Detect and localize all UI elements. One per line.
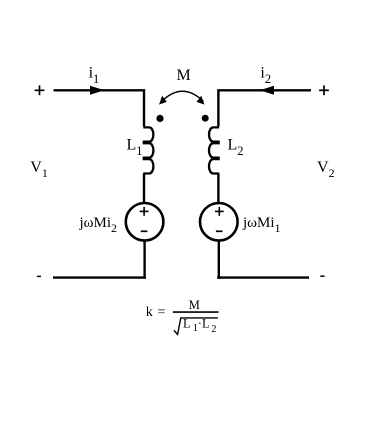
svg-text:V1: V1 bbox=[30, 159, 48, 180]
inductor L1 bbox=[143, 127, 153, 173]
wire right between coil and source bbox=[217, 174, 219, 204]
minus terminal left (V1 -) bbox=[37, 275, 41, 277]
plus terminal right (V2 +) bbox=[319, 85, 329, 95]
svg-text:=: = bbox=[158, 305, 166, 320]
svg-text:2: 2 bbox=[211, 324, 216, 335]
plus sign in right source bbox=[215, 207, 224, 216]
wire bottom-left bbox=[53, 276, 146, 278]
polarity dot left bbox=[156, 115, 163, 122]
source jwMi2 bbox=[126, 203, 164, 241]
wire left between coil and source bbox=[143, 174, 145, 204]
radical sign bbox=[174, 318, 218, 335]
current arrow i2 bbox=[260, 86, 274, 95]
svg-text:L1: L1 bbox=[127, 137, 143, 159]
mutual coupling arc M bbox=[162, 91, 204, 101]
minus sign in right source bbox=[216, 230, 223, 232]
minus sign in left source bbox=[141, 230, 148, 232]
svg-text:jωMi1: jωMi1 bbox=[242, 215, 281, 235]
arrowhead left of M arc bbox=[159, 96, 167, 105]
current arrow i1 bbox=[90, 86, 105, 95]
plus terminal left (V1 +) bbox=[35, 85, 45, 95]
wire top-right input bbox=[218, 90, 311, 126]
svg-text:k: k bbox=[146, 305, 153, 320]
source jwMi1 bbox=[200, 203, 238, 241]
svg-text:i2: i2 bbox=[260, 64, 271, 86]
svg-text:jωMi2: jωMi2 bbox=[79, 215, 118, 235]
fraction bar bbox=[173, 311, 219, 313]
svg-text:L: L bbox=[202, 317, 210, 331]
arrowhead right of M arc bbox=[197, 96, 205, 105]
plus sign in left source bbox=[140, 207, 149, 216]
svg-text:M: M bbox=[189, 298, 200, 312]
svg-text:V2: V2 bbox=[317, 159, 335, 180]
wire left below source bbox=[143, 241, 145, 279]
svg-text:M: M bbox=[176, 67, 190, 84]
wire top-left input bbox=[54, 90, 145, 126]
inductor L2 bbox=[209, 127, 219, 173]
wire bottom-right bbox=[217, 276, 309, 278]
svg-text:L2: L2 bbox=[228, 137, 244, 159]
wire right below source bbox=[218, 241, 220, 279]
minus terminal right (V2 -) bbox=[320, 275, 324, 277]
svg-text:L: L bbox=[183, 317, 191, 331]
polarity dot right bbox=[202, 115, 209, 122]
svg-text:i1: i1 bbox=[89, 64, 100, 86]
